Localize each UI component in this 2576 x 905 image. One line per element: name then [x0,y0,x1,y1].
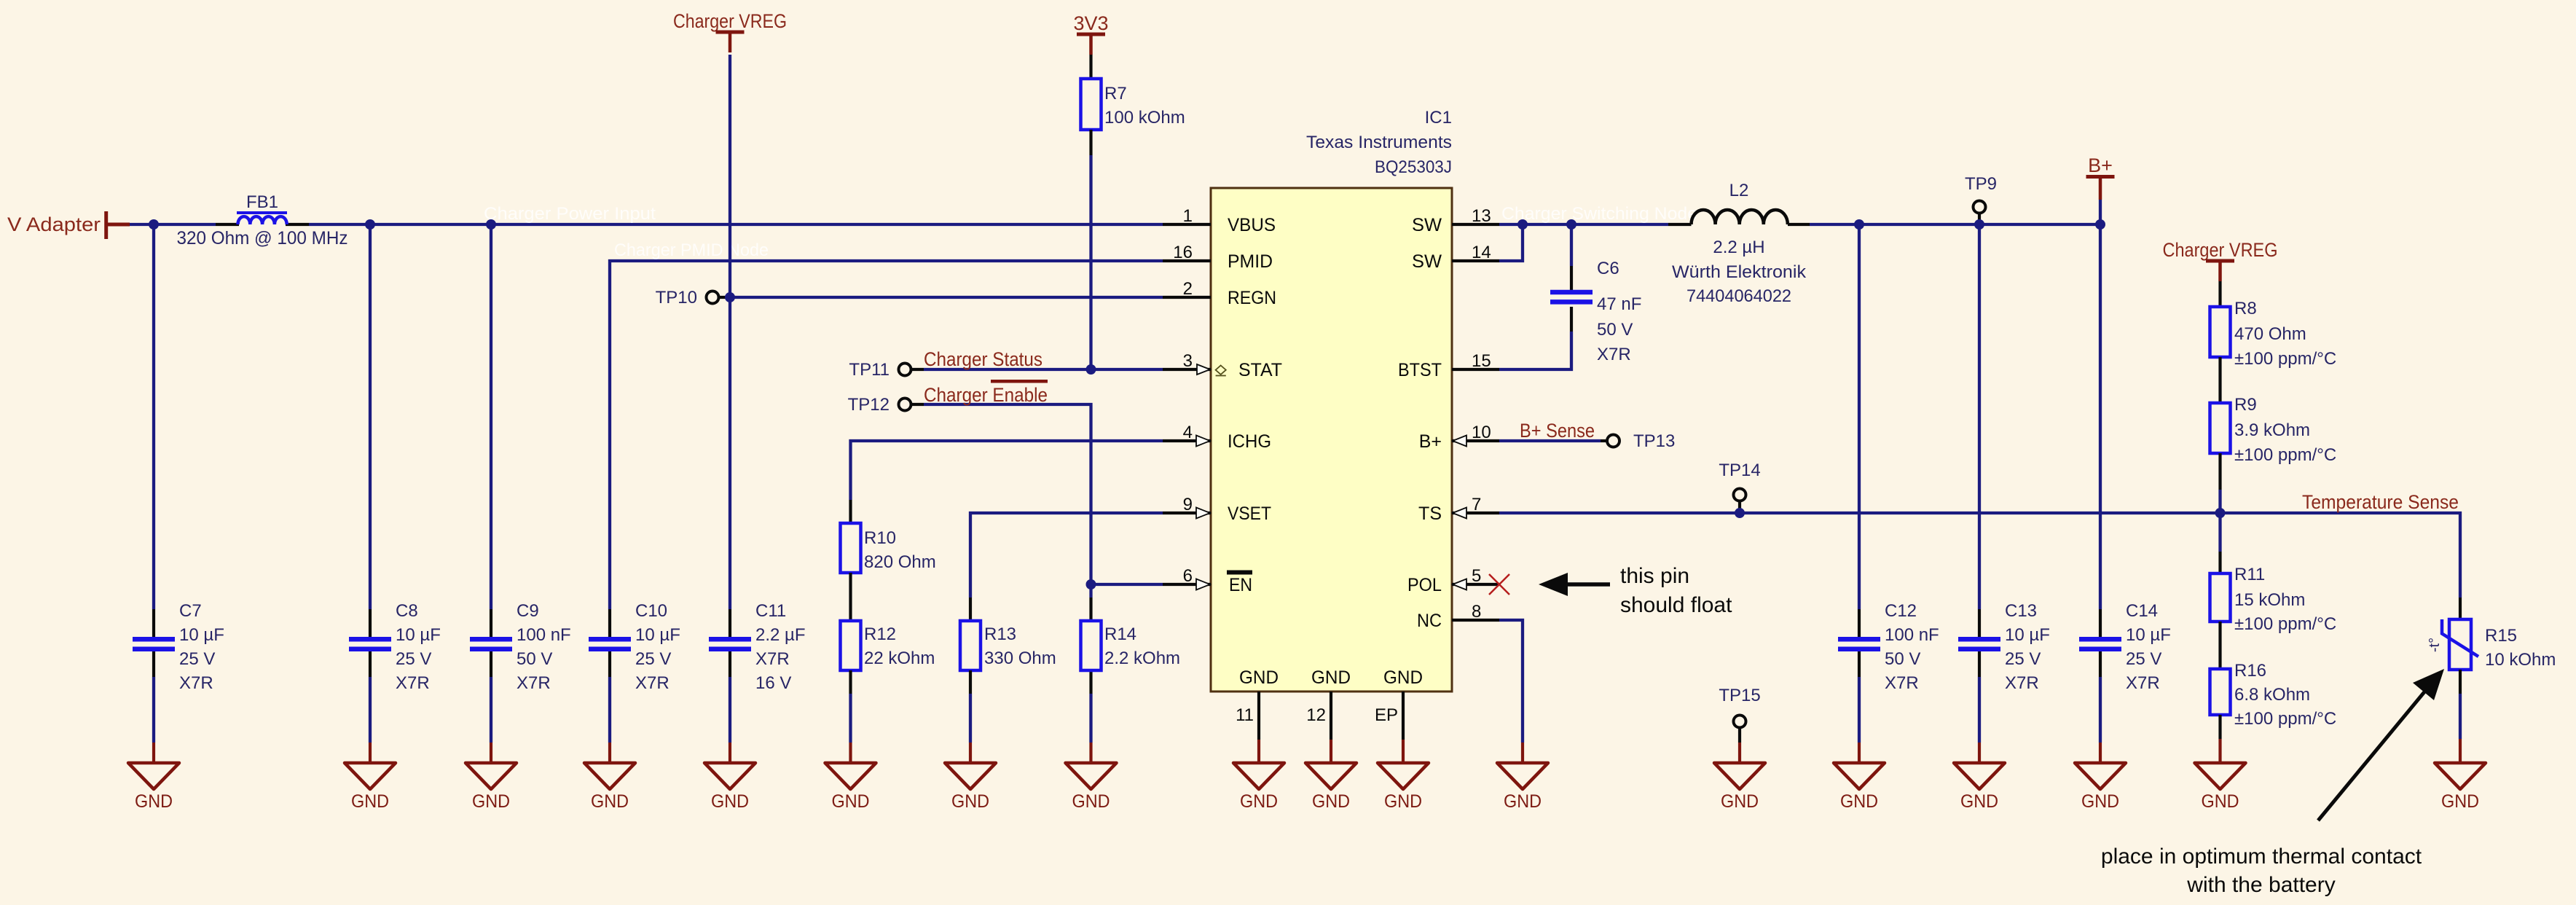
svg-text:25 V: 25 V [635,649,671,669]
inductor L2 [1668,181,1810,224]
pin 12 stub [1306,692,1331,763]
capacitor C7 [133,639,175,649]
wire R15 to ground [2459,670,2462,763]
svg-text:R14: R14 [1104,624,1136,644]
svg-text:GND: GND [2441,791,2479,812]
wire TS to R11 [2218,513,2221,573]
svg-text:B+: B+ [1419,431,1442,452]
svg-text:13: 13 [1472,206,1491,226]
svg-text:POL: POL [1407,575,1442,595]
svg-text:GND: GND [1311,667,1351,688]
FB1 value label [177,228,348,248]
R10 value labels [864,528,936,572]
pin name NC [1417,611,1442,631]
svg-text:place in optimum thermal conta: place in optimum thermal contact [2101,845,2422,869]
resistor R13 [960,621,981,670]
svg-text:Charger PMID Node: Charger PMID Node [614,240,769,260]
svg-text:100 kOhm: 100 kOhm [1104,108,1185,128]
capacitor C8 [349,639,391,649]
svg-text:22 kOhm: 22 kOhm [864,649,935,668]
ground NC net [1497,763,1548,812]
svg-text:±100 ppm/°C: ±100 ppm/°C [2234,349,2336,369]
pin name REGN [1228,288,1276,308]
ground under C13 [1954,763,2005,812]
L2 value labels [1672,238,1807,306]
IC1 title [1306,108,1452,177]
svg-text:C8: C8 [396,601,418,621]
pin 13 stub [1452,206,1499,226]
pin 16 stub [1163,243,1211,262]
pin name BTST [1398,360,1442,380]
annotation text thermal contact [2101,845,2422,897]
svg-text:C7: C7 [179,601,202,621]
junction C6 column [1566,219,1576,230]
svg-text:VBUS: VBUS [1228,215,1276,235]
svg-text:C13: C13 [2005,601,2037,621]
svg-text:2.2 µH: 2.2 µH [1713,238,1764,257]
pin name PMID [1228,251,1273,272]
pin name GND (11) [1239,667,1279,688]
svg-text:SW: SW [1412,215,1442,235]
svg-text:50 V: 50 V [1597,320,1633,340]
wire 3V3 to R7 [1089,55,1092,79]
svg-text:74404064022: 74404064022 [1686,286,1791,306]
power flag 3V3 [1073,12,1108,55]
svg-text:47 nF: 47 nF [1597,294,1641,314]
pin 7 stub [1452,495,1499,514]
test point TP9 [1965,174,1997,224]
capacitor C11 [709,639,751,649]
svg-text:25 V: 25 V [2005,649,2041,669]
svg-text:GND: GND [832,791,870,812]
svg-text:GND: GND [1072,791,1110,812]
annotation arrow to thermistor [2318,669,2444,820]
wire Charger Enable net [924,404,1163,598]
svg-text:TP10: TP10 [656,288,697,307]
svg-text:15: 15 [1472,351,1491,371]
wire REGN net [730,296,1163,299]
svg-text:X7R: X7R [755,649,790,669]
svg-text:2.2 kOhm: 2.2 kOhm [1104,649,1180,668]
pin 5 input arrow [1453,579,1466,590]
pin 14 stub [1452,243,1499,262]
svg-text:GND: GND [2081,791,2119,812]
R16 value labels [2234,661,2336,729]
net label Temperature Sense [2302,491,2459,513]
junction C12 column [1854,219,1864,230]
svg-text:25 V: 25 V [179,649,215,669]
svg-text:820 Ohm: 820 Ohm [864,552,936,572]
wire R10 to R12 [849,573,852,621]
wire C13 column [1978,224,1981,763]
svg-text:Charger VREG: Charger VREG [673,10,787,32]
svg-text:GND: GND [2202,791,2239,812]
wire B+ Sense net [1499,439,1607,442]
pin 9 input arrow [1196,508,1210,519]
svg-text:25 V: 25 V [396,649,431,669]
svg-text:R13: R13 [984,624,1016,644]
junction STAT / R7 [1086,364,1096,375]
svg-text:10 µF: 10 µF [179,625,224,645]
R11 value labels [2234,565,2336,634]
wire C14 column [2099,224,2102,763]
svg-text:9: 9 [1183,495,1193,514]
pin 3 output arrow and diamond [1197,364,1226,376]
svg-text:B+: B+ [2088,154,2113,176]
svg-text:this pin: this pin [1620,564,1689,588]
capacitor C12 [1838,639,1880,649]
svg-text:STAT: STAT [1238,360,1282,380]
svg-text:Charger VREG: Charger VREG [2163,239,2278,261]
C8 value labels [396,601,441,693]
net label Charger Status [924,348,1042,370]
port V Adapter [7,211,130,239]
pin 15 stub [1452,351,1499,371]
svg-text:C6: C6 [1597,259,1619,278]
power flag Charger VREG (right) [2163,239,2278,281]
wire VBUS net (V Adapter to pin 1) [130,223,1163,226]
wire B+ stub [2099,200,2102,224]
node Charger Power Input (ghost label) [484,204,656,224]
annotation text this pin should float [1620,564,1732,617]
op-amp U1 body (IC1 BQ25303J) [1211,188,1452,692]
svg-text:Charger Enable: Charger Enable [924,384,1048,406]
svg-text:10 µF: 10 µF [2126,625,2171,645]
svg-text:50 V: 50 V [1885,649,1920,669]
annotation arrow to POL pin [1539,573,1610,596]
test point TP15 [1719,686,1760,763]
svg-text:GND: GND [1384,791,1422,812]
wire R9 to TS net [2218,453,2221,513]
svg-text:Temperature Sense: Temperature Sense [2302,491,2459,513]
svg-text:4: 4 [1183,423,1193,442]
ground under C10 [584,763,635,812]
junction REGN / Charger VREG [725,292,735,302]
pin 6 input arrow [1196,579,1210,590]
pin name GND (12) [1311,667,1351,688]
resistor R10 [841,523,861,573]
svg-text:R10: R10 [864,528,896,548]
svg-text:R12: R12 [864,624,896,644]
svg-text:R8: R8 [2234,299,2257,318]
node Charger Switching Node (ghost label) [1501,204,1697,224]
ground under R13 [945,763,996,812]
svg-text:GND: GND [351,791,389,812]
svg-text:470 Ohm: 470 Ohm [2234,324,2306,344]
svg-text:SW: SW [1412,251,1442,272]
capacitor C14 [2079,639,2121,649]
R15 value labels [2485,626,2556,670]
R14 value labels [1104,624,1180,668]
pin 9 stub [1163,495,1211,514]
svg-text:3V3: 3V3 [1073,12,1108,34]
pin 6 stub [1163,566,1211,586]
svg-text:GND: GND [951,791,989,812]
ground under C9 [466,763,517,812]
svg-text:3: 3 [1183,351,1193,371]
test point TP13 [1607,431,1675,451]
svg-text:with the battery: with the battery [2186,873,2335,897]
svg-text:GND: GND [591,791,629,812]
svg-text:R16: R16 [2234,661,2266,681]
svg-text:Charger Status: Charger Status [924,348,1042,370]
power flag Charger VREG (left) [673,10,787,52]
test point TP10 [656,288,730,307]
pin name SW (14) [1412,251,1442,272]
svg-text:8: 8 [1472,602,1481,622]
wire VREG to R8 [2218,281,2221,307]
svg-text:±100 ppm/°C: ±100 ppm/°C [2234,445,2336,465]
svg-text:GND: GND [1383,667,1423,688]
svg-text:IC1: IC1 [1425,108,1452,128]
svg-text:EP: EP [1375,705,1398,725]
wire Charger VREG to REGN and C11 [729,55,731,763]
pin 5 stub [1452,566,1499,586]
wire ICHG net [851,441,1163,523]
svg-text:TS: TS [1418,504,1442,524]
svg-text:330 Ohm: 330 Ohm [984,649,1056,668]
svg-text:16 V: 16 V [755,673,791,693]
svg-text:10 µF: 10 µF [396,625,441,645]
C7 value labels [179,601,224,693]
svg-text:2.2 µF: 2.2 µF [755,625,806,645]
svg-text:GND: GND [135,791,173,812]
svg-text:TP11: TP11 [849,360,890,380]
ground IC pin 11 [1233,763,1284,812]
C13 value labels [2005,601,2050,693]
pin name SW (13) [1412,215,1442,235]
pin 11 stub [1236,692,1259,763]
node Charger PMID Node (ghost label) [614,240,769,260]
wire R8 to R9 [2218,357,2221,403]
net label Charger Enable [924,380,1048,406]
wire STAT net [924,368,1163,371]
test point TP14 [1719,461,1760,513]
wire R7 to STAT net [1089,130,1092,369]
test point TP12 [848,395,924,415]
svg-text:ICHG: ICHG [1228,431,1271,452]
ground under C12 [1834,763,1885,812]
svg-text:BQ25303J: BQ25303J [1375,157,1452,177]
capacitor C6 [1550,292,1593,302]
svg-text:L2: L2 [1729,181,1749,200]
wire C6 and BTST net [1499,224,1571,369]
svg-text:25 V: 25 V [2126,649,2161,669]
wire R16 to ground [2218,715,2221,763]
wire C7 column [152,224,155,763]
ground under C8 [345,763,396,812]
capacitor C9 [470,639,512,649]
junction TP9 / C13 [1974,219,1984,230]
svg-text:GND: GND [1240,791,1278,812]
svg-text:C11: C11 [755,601,786,621]
svg-text:R9: R9 [2234,395,2257,415]
svg-text:TP9: TP9 [1965,174,1997,194]
svg-text:11: 11 [1236,705,1254,725]
pin name ICHG [1228,431,1271,452]
svg-text:B+ Sense: B+ Sense [1520,420,1595,442]
svg-text:16: 16 [1173,243,1193,262]
pin name VBUS [1228,215,1276,235]
capacitor C13 [1958,639,2000,649]
ground under R16 [2195,763,2246,812]
svg-text:15 kOhm: 15 kOhm [2234,590,2305,610]
svg-text:1: 1 [1183,206,1193,226]
wire R13 to ground [969,670,972,763]
svg-text:TP15: TP15 [1719,686,1760,705]
svg-text:Charger Switching Node: Charger Switching Node [1501,204,1697,224]
svg-text:FB1: FB1 [246,192,278,212]
ground IC pin 12 [1305,763,1356,812]
ground under C11 [704,763,755,812]
ground under TP15 [1714,763,1765,812]
resistor R7 [1081,79,1102,130]
ground under R14 [1066,763,1117,812]
pin 4 input arrow [1196,436,1210,447]
svg-text:3.9 kOhm: 3.9 kOhm [2234,420,2310,440]
svg-text:GND: GND [472,791,510,812]
wire Temperature Sense net [1499,513,2460,619]
R7 value labels [1104,84,1185,128]
svg-text:GND: GND [711,791,749,812]
svg-text:10 µF: 10 µF [635,625,680,645]
svg-text:C12: C12 [1885,601,1917,621]
svg-text:6.8 kOhm: 6.8 kOhm [2234,685,2310,705]
junction at C9 column [486,219,496,230]
junction TP14 [1735,508,1745,518]
svg-text:NC: NC [1417,611,1442,631]
svg-text:100 nF: 100 nF [1885,625,1939,645]
junction B+ / C14 [2095,219,2105,230]
svg-text:X7R: X7R [1597,345,1631,364]
svg-text:100 nF: 100 nF [517,625,571,645]
svg-text:PMID: PMID [1228,251,1273,272]
wire NC net to ground [1499,620,1523,763]
svg-text:X7R: X7R [2005,673,2039,693]
junction at C8 column [365,219,375,230]
wire C8 column [369,224,372,763]
wire C12 column [1858,224,1861,763]
junction SW pins join [1517,219,1528,230]
ferrite bead FB1 [237,192,287,224]
pin name STAT [1238,360,1282,380]
svg-text:GND: GND [1721,791,1759,812]
wire SW net (pins 13/14 through L2 to B+) [1499,224,2100,261]
resistor R14 [1081,621,1102,670]
svg-text:BTST: BTST [1398,360,1442,380]
svg-text:2: 2 [1183,279,1193,299]
svg-text:X7R: X7R [1885,673,1919,693]
svg-text:TP13: TP13 [1633,431,1675,451]
R9 value labels [2234,395,2336,465]
svg-text:R15: R15 [2485,626,2517,646]
svg-text:R11: R11 [2234,565,2265,584]
svg-text:10: 10 [1472,423,1491,442]
test point TP11 [849,360,924,380]
wire R12 to ground [849,670,852,763]
junction at C7 column [149,219,159,230]
pin name GND (EP) [1383,667,1423,688]
resistor R11 [2210,573,2231,622]
svg-text:GND: GND [1504,791,1542,812]
svg-text:-t°: -t° [2427,638,2443,652]
wire C9 column [490,224,492,763]
ground under R12 [825,763,876,812]
R13 value labels [984,624,1056,668]
svg-text:V Adapter: V Adapter [7,213,101,235]
svg-text:C9: C9 [517,601,539,621]
resistor R12 [841,621,861,670]
svg-text:EN: EN [1229,575,1252,595]
resistor R16 [2210,669,2231,715]
no-connect cross on POL pin [1489,574,1509,595]
pin name TS [1418,504,1442,524]
svg-text:50 V: 50 V [517,649,552,669]
C14 value labels [2126,601,2171,693]
C9 value labels [517,601,571,693]
ground IC pin EP [1378,763,1429,812]
pin 7 input arrow [1453,508,1466,519]
wire R11 to R16 [2218,622,2221,669]
pin name EN (active low) [1227,571,1252,596]
svg-text:VSET: VSET [1228,504,1271,524]
svg-text:±100 ppm/°C: ±100 ppm/°C [2234,614,2336,634]
capacitor C10 [589,639,631,649]
pin 4 stub [1163,423,1211,442]
pin 2 stub [1163,279,1211,299]
pin EP stub [1375,692,1403,763]
pin name B+ [1419,431,1442,452]
svg-text:R7: R7 [1104,84,1127,103]
pin 3 stub [1163,351,1211,371]
svg-text:C10: C10 [635,601,667,621]
svg-text:GND: GND [1312,791,1350,812]
svg-text:X7R: X7R [396,673,430,693]
svg-text:Texas Instruments: Texas Instruments [1306,133,1452,152]
svg-text:7: 7 [1472,495,1481,514]
pin name POL [1407,575,1442,595]
C6 value labels [1597,259,1641,364]
C12 value labels [1885,601,1939,693]
svg-text:X7R: X7R [2126,673,2160,693]
power flag B+ [2086,154,2115,200]
svg-text:320 Ohm @ 100 MHz: 320 Ohm @ 100 MHz [177,228,348,248]
resistor R8 [2210,307,2231,357]
ground under C14 [2075,763,2126,812]
svg-text:TP12: TP12 [848,395,890,415]
wire PMID net (pin 16 to C10) [610,261,1163,763]
ground under R15 [2435,763,2486,812]
wire VSET net [970,513,1163,621]
net label B+ Sense [1520,420,1595,442]
svg-text:Charger Power Input: Charger Power Input [484,204,656,224]
svg-text:should float: should float [1620,593,1732,617]
junction TS / divider [2215,508,2226,518]
pin 10 stub [1452,423,1499,442]
svg-text:±100 ppm/°C: ±100 ppm/°C [2234,709,2336,729]
thermistor R15 [2427,619,2478,670]
R12 value labels [864,624,935,668]
svg-text:GND: GND [1960,791,1998,812]
svg-text:GND: GND [1840,791,1878,812]
svg-text:10 kOhm: 10 kOhm [2485,650,2556,670]
svg-text:12: 12 [1306,705,1326,725]
svg-text:5: 5 [1472,566,1481,586]
C11 value labels [755,601,806,693]
R8 value labels [2234,299,2336,369]
svg-text:Würth Elektronik: Würth Elektronik [1672,262,1807,282]
resistor R9 [2210,403,2231,453]
